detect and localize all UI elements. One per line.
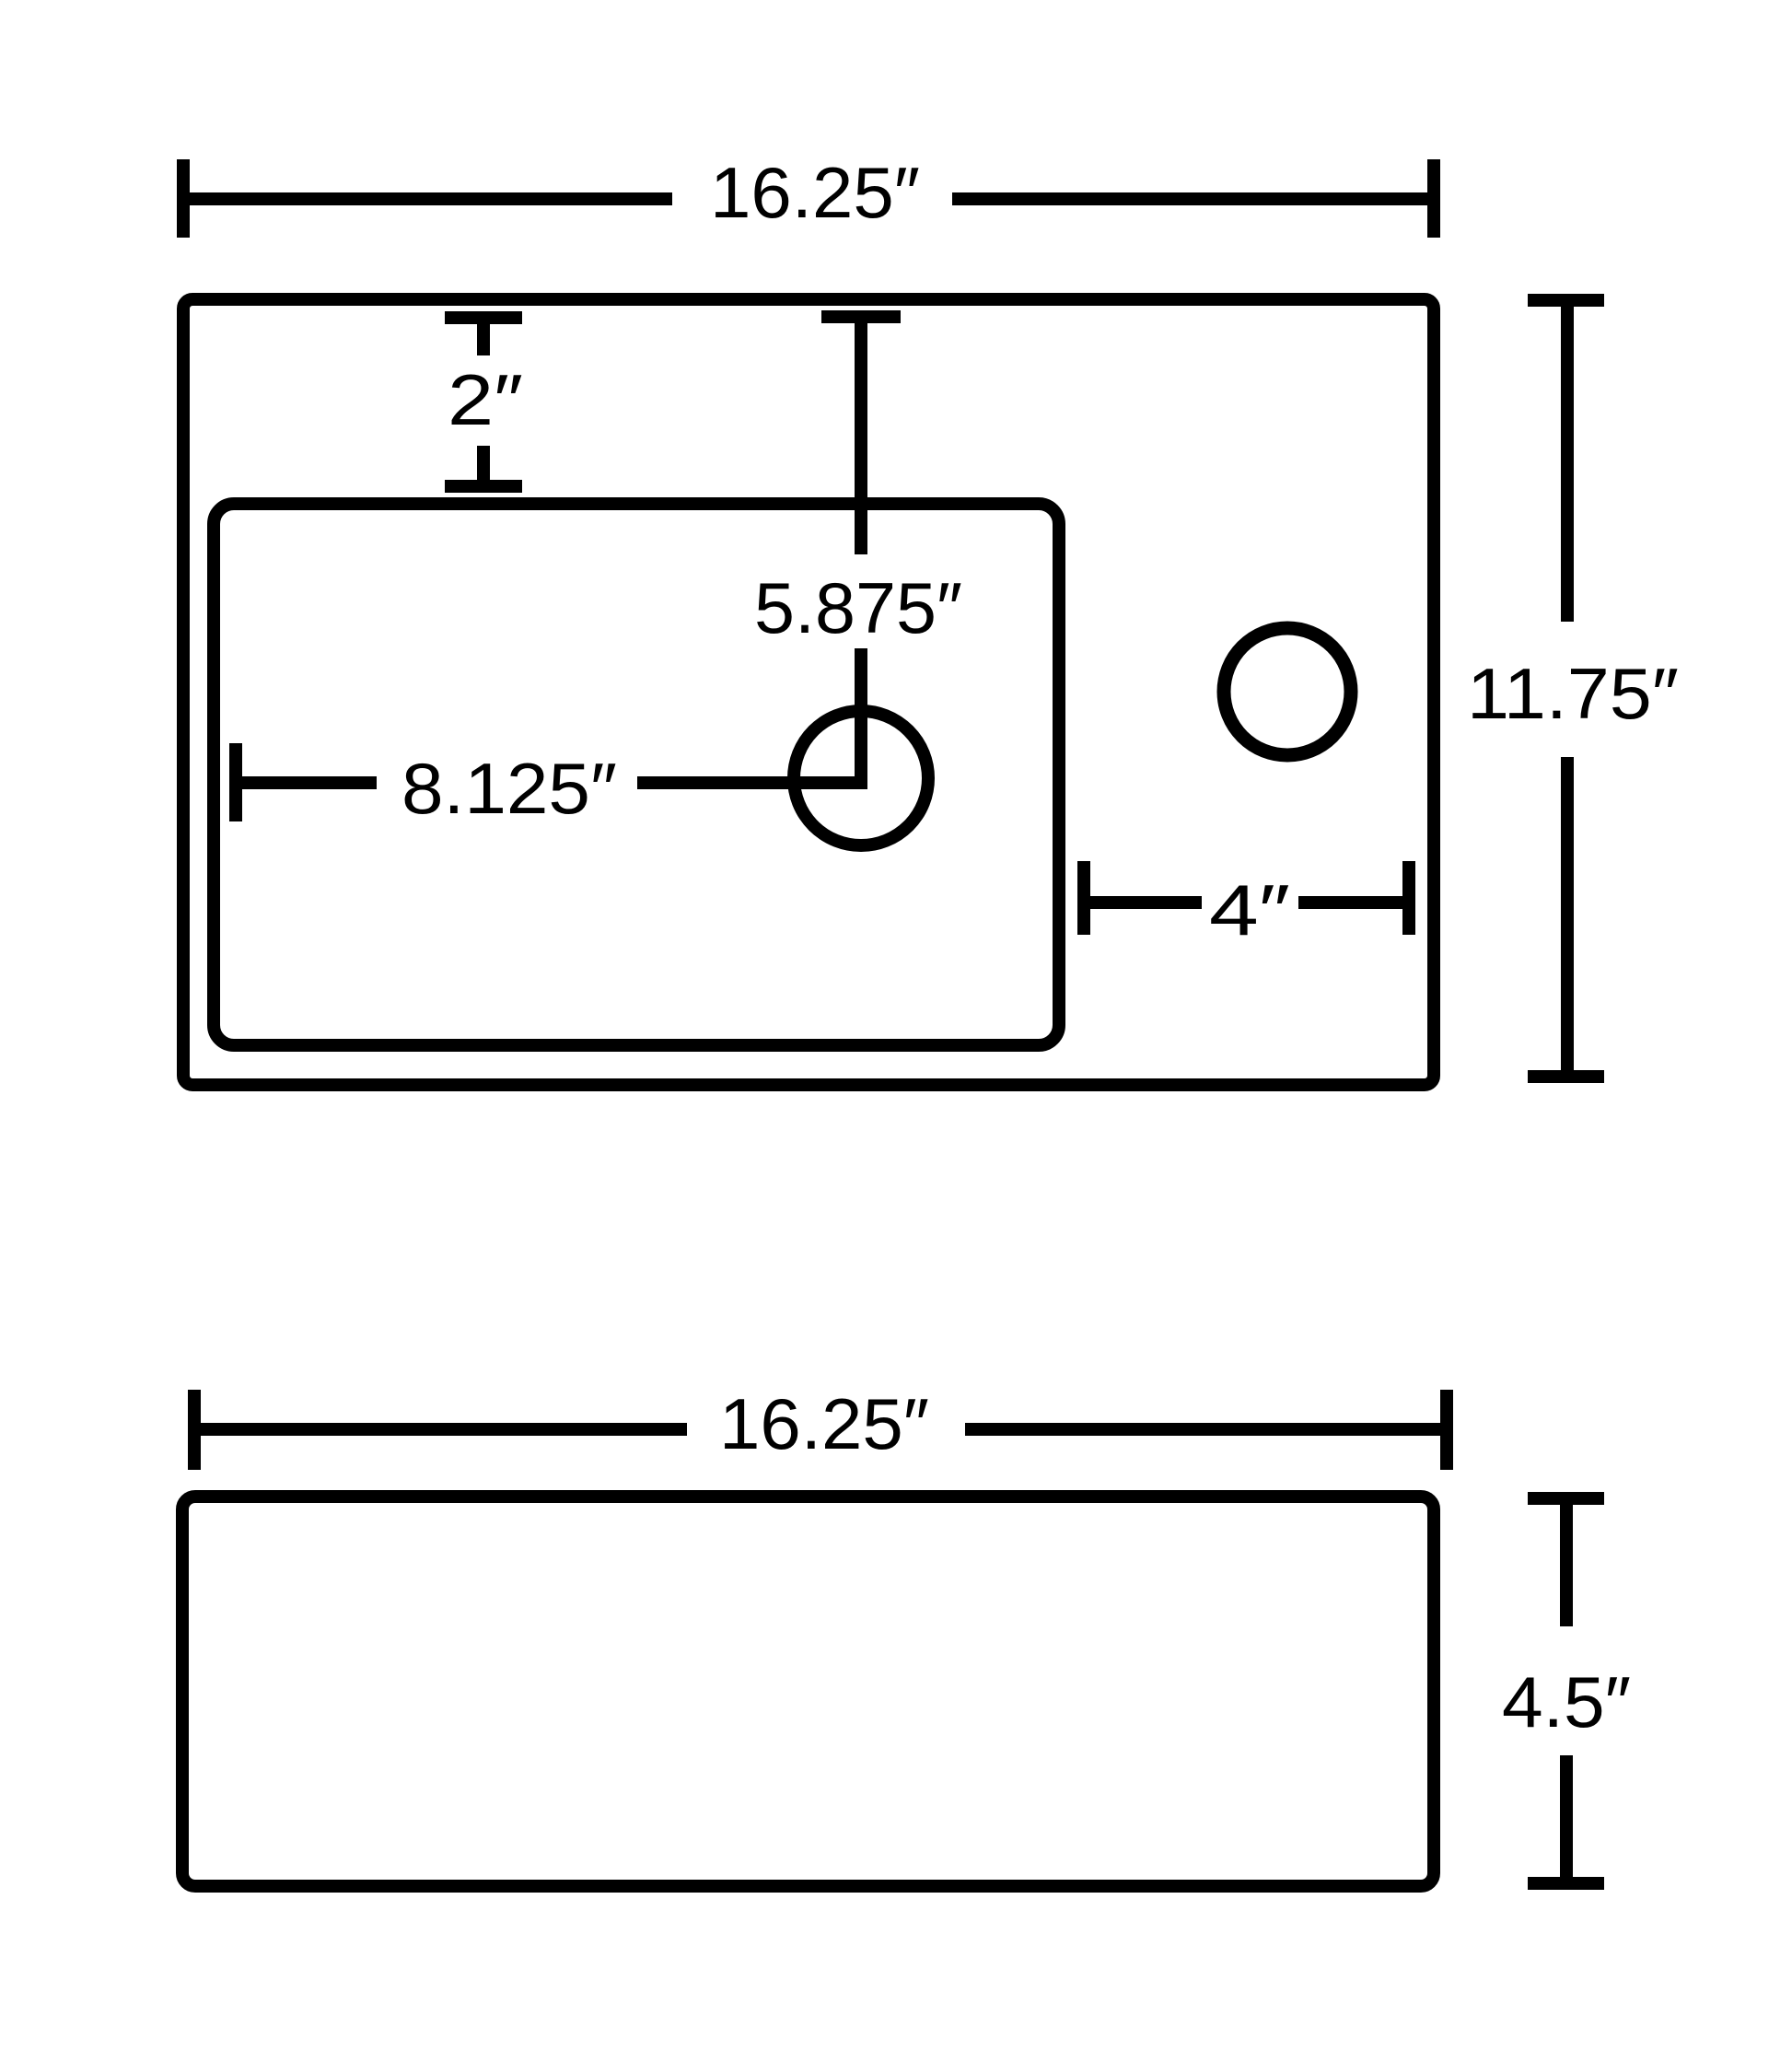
dimension 16.25in top: left tick bbox=[177, 159, 190, 238]
faucet hole circle bbox=[1224, 628, 1351, 755]
svg-text:4″: 4″ bbox=[1209, 869, 1290, 950]
dimension 16.25in top: right tick bbox=[1427, 159, 1440, 238]
svg-text:5.875″: 5.875″ bbox=[754, 567, 962, 648]
svg-text:11.75″: 11.75″ bbox=[1467, 653, 1679, 734]
sink body front view rect bbox=[182, 1497, 1434, 1886]
dimension 4in: line left segment bbox=[1084, 896, 1202, 909]
basin inner rect (top view) bbox=[214, 504, 1059, 1045]
dimension 2in: top stem bbox=[477, 318, 490, 355]
dimension 4.5in: bottom bar bbox=[1528, 1877, 1604, 1890]
svg-text:4.5″: 4.5″ bbox=[1502, 1661, 1631, 1742]
dimension 2in: top bar bbox=[445, 311, 522, 324]
dimension 4in: left tick bbox=[1077, 861, 1090, 935]
dimension 8.125in: line right segment to drain center bbox=[637, 776, 867, 789]
dimension 16.25in bottom: line left segment bbox=[194, 1423, 687, 1436]
dimension 4in: right tick bbox=[1402, 861, 1415, 935]
dimension 16.25in bottom: right tick bbox=[1440, 1390, 1453, 1470]
dimension 11.75in: lower stem bbox=[1561, 757, 1574, 1077]
drain hole circle bbox=[794, 711, 928, 845]
dimension 2in: bottom stem bbox=[477, 446, 490, 486]
dimension 8.125in: left tick bbox=[229, 743, 242, 821]
dimension 4.5in: top bar bbox=[1528, 1492, 1604, 1505]
svg-text:16.25″: 16.25″ bbox=[719, 1383, 929, 1464]
dimension 11.75in: bottom bar bbox=[1528, 1070, 1604, 1083]
dimension 16.25in bottom: left tick bbox=[188, 1390, 201, 1470]
dimension 5.875in: lower stem to drain center bbox=[855, 648, 867, 783]
svg-text:8.125″: 8.125″ bbox=[401, 748, 617, 829]
dimension 5.875in: top bar bbox=[821, 310, 901, 323]
dimension 16.25in bottom: line right segment bbox=[965, 1423, 1447, 1436]
dimension 5.875in: upper stem bbox=[855, 317, 867, 554]
dimension 4.5in: lower stem bbox=[1560, 1755, 1573, 1883]
svg-text:2″: 2″ bbox=[448, 359, 523, 440]
dimension 4.5in: upper stem bbox=[1560, 1498, 1573, 1626]
dimension 4in: line right segment bbox=[1298, 896, 1409, 909]
dimension 16.25in top: line right segment bbox=[952, 192, 1434, 205]
dimension 16.25in top: line left segment bbox=[183, 192, 672, 205]
dimension 2in: bottom bar bbox=[445, 480, 522, 493]
svg-text:16.25″: 16.25″ bbox=[710, 152, 920, 233]
dimension 8.125in: line left segment bbox=[236, 776, 377, 789]
dimension 11.75in: upper stem bbox=[1561, 300, 1574, 622]
dimension 11.75in: top bar bbox=[1528, 294, 1604, 307]
sink outer rim (top view) bbox=[183, 299, 1434, 1085]
